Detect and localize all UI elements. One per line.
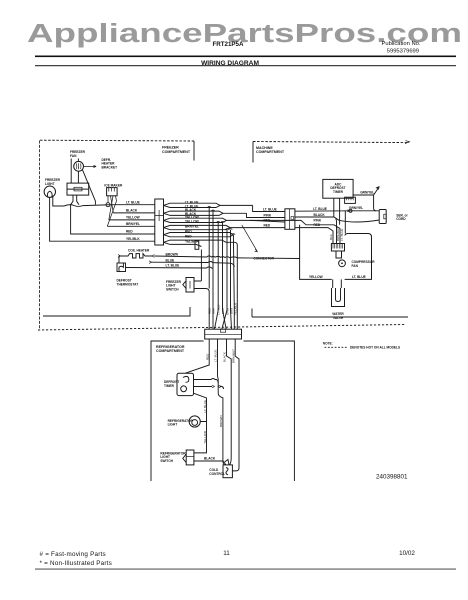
svg-text:BRACKET: BRACKET bbox=[102, 165, 118, 169]
svg-text:FAN: FAN bbox=[70, 154, 77, 158]
svg-text:Publication No.: Publication No. bbox=[382, 41, 421, 47]
header rule 1 bbox=[35, 56, 456, 58]
small end connector bbox=[195, 241, 199, 249]
brown run bbox=[155, 256, 300, 259]
svg-text:LT. BLUE: LT. BLUE bbox=[340, 229, 344, 241]
svg-text:* = Non-Illustrated Parts: * = Non-Illustrated Parts bbox=[40, 560, 113, 567]
timer terminal block bbox=[345, 197, 356, 203]
svg-text:BROWN: BROWN bbox=[219, 416, 223, 428]
fridge wires below connector bbox=[185, 339, 239, 471]
blue run bbox=[151, 262, 235, 267]
svg-text:TIMER: TIMER bbox=[333, 190, 344, 194]
svg-text:11: 11 bbox=[223, 550, 230, 557]
freezer fan shroud bbox=[71, 159, 78, 184]
svg-text:COIL HEATER: COIL HEATER bbox=[128, 249, 150, 253]
switch to cold control wire bbox=[194, 461, 226, 465]
svg-text:YELLOW: YELLOW bbox=[126, 216, 140, 220]
wire run brn/yel left bbox=[107, 225, 155, 227]
svg-text:RED: RED bbox=[185, 230, 192, 234]
machine compartment top dashed border bbox=[253, 142, 409, 143]
freezer fan motor box bbox=[67, 183, 89, 195]
svg-text:BRN/WHT: BRN/WHT bbox=[336, 227, 340, 241]
svg-text:CORD: CORD bbox=[396, 217, 406, 221]
defrost thermostat bbox=[118, 256, 120, 263]
svg-text:VALVE: VALVE bbox=[333, 316, 343, 320]
svg-text:240398801: 240398801 bbox=[376, 473, 408, 480]
svg-text:FRT21P5A: FRT21P5A bbox=[213, 41, 244, 48]
refrigerator light bulb bbox=[189, 416, 200, 427]
left page dashed border bbox=[39, 141, 41, 331]
defrost heater label arrow bbox=[84, 165, 96, 167]
svg-text:SWITCH: SWITCH bbox=[160, 459, 173, 463]
lt blue run from thermostat bbox=[126, 267, 214, 268]
machine border end arrow bbox=[405, 141, 410, 144]
svg-text:WHT: WHT bbox=[211, 307, 215, 314]
connector right flag pair A bbox=[164, 203, 307, 246]
coil heater element bbox=[119, 254, 152, 258]
freezer light bulb bbox=[44, 186, 55, 197]
freezer compartment top dashed border bbox=[40, 139, 194, 142]
svg-text:FAN: FAN bbox=[352, 264, 359, 268]
water valve body bbox=[332, 288, 345, 307]
footer rule bbox=[35, 568, 456, 571]
compressor motor circle bbox=[339, 260, 346, 267]
compressor compartment outline bbox=[300, 225, 372, 280]
svg-text:5995379699: 5995379699 bbox=[387, 49, 419, 55]
freezer compartment corner bracket bbox=[193, 141, 195, 161]
svg-text:BRN/YEL: BRN/YEL bbox=[126, 222, 140, 226]
light stub to vertical bbox=[194, 419, 207, 453]
svg-text:LIGHT: LIGHT bbox=[45, 182, 55, 186]
machine right wires bbox=[295, 211, 379, 244]
svg-text:BRN/WHT: BRN/WHT bbox=[231, 349, 235, 363]
fridge wire labels vertical bbox=[203, 349, 236, 444]
svg-text:LT. BLUE: LT. BLUE bbox=[352, 275, 366, 279]
svg-text:CONNECTOR: CONNECTOR bbox=[253, 257, 274, 261]
svg-text:YEL/BLK: YEL/BLK bbox=[126, 237, 140, 241]
fan motor leads bbox=[71, 195, 79, 205]
svg-text:COMPARTMENT: COMPARTMENT bbox=[156, 349, 185, 353]
grn/yel drop to compressor bbox=[344, 211, 346, 234]
svg-text:PINK: PINK bbox=[314, 218, 322, 222]
lower connector block bbox=[205, 329, 242, 339]
svg-text:# = Fast-moving Parts: # = Fast-moving Parts bbox=[40, 551, 106, 558]
refrigerator light switch bbox=[183, 450, 194, 465]
svg-text:BLK: BLK bbox=[221, 308, 225, 314]
svg-text:LIGHT: LIGHT bbox=[168, 423, 178, 427]
freezer light switch bbox=[183, 278, 194, 293]
svg-text:LT. BLUE: LT. BLUE bbox=[166, 264, 180, 268]
svg-text:RED: RED bbox=[205, 353, 209, 360]
inline connector marks bbox=[118, 255, 155, 258]
svg-text:LT. BLUE: LT. BLUE bbox=[126, 201, 140, 205]
machine bottom solid border bbox=[252, 309, 408, 318]
svg-text:LT. BLUE: LT. BLUE bbox=[263, 207, 277, 211]
svg-text:GRN/YEL: GRN/YEL bbox=[360, 190, 374, 194]
svg-text:BLK: BLK bbox=[329, 234, 333, 240]
relay box bbox=[331, 244, 344, 259]
machine run 1 lt.blue bbox=[253, 205, 285, 211]
svg-text:BLUE: BLUE bbox=[166, 258, 175, 262]
svg-text:10/02: 10/02 bbox=[399, 550, 415, 557]
svg-text:LT. BLUE: LT. BLUE bbox=[214, 350, 218, 362]
machine connector box bbox=[285, 209, 295, 230]
machine compartment corner bracket bbox=[252, 142, 254, 163]
grn/yel ground wire bbox=[353, 195, 377, 211]
svg-text:SWITCH: SWITCH bbox=[166, 287, 179, 291]
svg-text:COMPARTMENT: COMPARTMENT bbox=[162, 150, 191, 154]
header rule 2 bbox=[35, 65, 456, 66]
svg-text:PINK: PINK bbox=[264, 213, 272, 217]
svg-text:COMPARTMENT: COMPARTMENT bbox=[256, 150, 285, 154]
vertical wire labels to relay bbox=[329, 227, 344, 241]
compartment divider dashed line bbox=[38, 325, 405, 331]
svg-text:BLACK: BLACK bbox=[204, 456, 216, 460]
flag pair F bbox=[164, 240, 227, 242]
flag pair C bbox=[164, 218, 307, 225]
wire run black left bbox=[113, 212, 155, 214]
timer wires right bbox=[194, 379, 224, 419]
wire run red left bbox=[71, 205, 155, 234]
defrost timer box bbox=[177, 373, 194, 395]
fan diagonal wire bbox=[83, 170, 96, 205]
water valve leads bbox=[333, 279, 342, 288]
bundle verticals bbox=[201, 208, 237, 330]
junction connector on run1 bbox=[349, 209, 352, 212]
switch wires bbox=[194, 281, 209, 292]
adc timer box bbox=[323, 179, 353, 198]
ice maker connector bbox=[107, 188, 118, 196]
timer leads down bbox=[334, 198, 340, 225]
svg-text:ICE MAKER: ICE MAKER bbox=[104, 183, 123, 187]
overload box bbox=[336, 251, 342, 258]
connector leader arrow bbox=[242, 225, 258, 252]
central connector block bbox=[155, 199, 164, 245]
machine run 2 pink bbox=[247, 213, 285, 217]
ice maker leads crossing bbox=[107, 196, 116, 227]
svg-text:RED: RED bbox=[126, 230, 133, 234]
svg-text:RED: RED bbox=[264, 223, 271, 227]
machine run 3 red bbox=[250, 220, 285, 222]
refrigerator compartment box bbox=[151, 341, 294, 481]
flag pair D bbox=[164, 225, 285, 227]
wire run yel/blk left bbox=[120, 240, 155, 242]
freezer bottom solid border bbox=[43, 307, 190, 316]
svg-text:THERMOSTAT: THERMOSTAT bbox=[117, 282, 139, 286]
svg-text:TIMER: TIMER bbox=[164, 384, 175, 388]
wire run lt.blue left bbox=[64, 205, 155, 207]
svg-text:YELLOW: YELLOW bbox=[309, 275, 323, 279]
wire run yellow left bbox=[109, 219, 155, 221]
svg-text:BROWN: BROWN bbox=[166, 252, 179, 256]
ground arrow head bbox=[376, 186, 380, 190]
note dashes bbox=[325, 346, 349, 348]
freezer fan motor circle bbox=[74, 161, 84, 171]
cold control box bbox=[223, 460, 232, 478]
svg-text:GRN/YEL: GRN/YEL bbox=[349, 206, 363, 210]
flag pair B bbox=[164, 211, 247, 213]
svg-text:DENOTES HOT ON ALL MODELS: DENOTES HOT ON ALL MODELS bbox=[350, 346, 400, 350]
power cord plug bbox=[379, 210, 386, 224]
svg-text:BLACK: BLACK bbox=[126, 209, 138, 213]
svg-text:RED: RED bbox=[264, 219, 271, 223]
svg-text:LT. BLU: LT. BLU bbox=[216, 305, 220, 315]
svg-text:YELLOW: YELLOW bbox=[185, 220, 199, 224]
bundle vertical labels above lower connector bbox=[207, 303, 237, 315]
svg-text:BLACK: BLACK bbox=[223, 352, 227, 362]
freezer light right wire bbox=[53, 196, 64, 206]
junction node circle bbox=[106, 203, 110, 207]
svg-text:NOTE:: NOTE: bbox=[323, 342, 333, 346]
bundle hook arcs top bbox=[207, 206, 235, 234]
flag pair E bbox=[164, 233, 234, 235]
svg-text:YEL/BLK: YEL/BLK bbox=[233, 303, 237, 315]
freezer light stem wire bbox=[50, 197, 120, 241]
